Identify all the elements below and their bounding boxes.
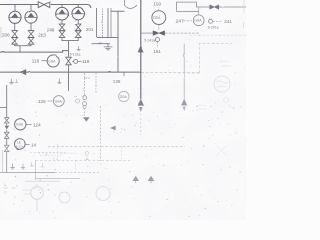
faint left vertical bottom [1,150,3,173]
pump P4 stub [77,5,79,8]
wire dash 241 [213,20,223,22]
pump P3 stub [56,5,88,8]
faint ghost text bottom left [3,188,16,192]
instrument LE circle [14,139,25,150]
instrument GSA faint mid circle [119,91,129,101]
tiny glyph arrows bottom right [133,176,138,183]
pump P2 stub [30,5,32,11]
wire between valves [6,123,8,145]
instrument GSA-126 circle [53,96,64,107]
svg-text:206: 206 [47,27,55,32]
stub GSA-150 [158,7,160,30]
svg-text:GSA: GSA [194,19,202,23]
check valve filled [4,126,9,130]
wire dash 124 [27,124,32,126]
scan mottle texture [0,0,246,220]
valve V-tr (filled bowtie) [210,5,219,10]
svg-text:150: 150 [153,1,161,6]
svg-text:GSA: GSA [55,99,63,103]
instrument GSA-124 circle [15,119,26,130]
wire collector group B [62,37,78,56]
svg-text:S-201a: S-201a [208,25,219,29]
wire pump P4 down [77,20,79,24]
vent symbols bottom [10,164,14,169]
faint right edge ticks [243,0,246,28]
wire pump P2 down [30,23,32,30]
svg-text:GSA: GSA [48,59,56,63]
bus line 2 faint extension [141,72,199,74]
bottom horizontal line 2 [35,178,80,180]
ground symbol [104,47,113,50]
vent symbols below bus2 left [9,79,13,84]
flow arrow left mid [110,126,116,131]
wire valve S-131a down [68,65,70,91]
valve V206b stack [59,24,65,31]
faint circle bottom 3 [96,187,110,201]
riser header [97,37,119,39]
faint vertical with arrow right [183,44,185,99]
svg-text:118: 118 [32,58,40,63]
svg-text:GSA: GSA [153,16,161,20]
svg-text:126: 126 [113,79,121,84]
svg-text:5-131a: 5-131a [70,53,81,57]
ghost squiggles right [216,81,228,87]
main vertical line with flow arrows [140,0,142,99]
small circle above check arrow [84,109,86,116]
svg-text:5-141a: 5-141a [144,39,155,43]
wire collector group A [15,44,31,52]
dashed vertical x100 [99,106,101,161]
dashed drop x84.5 [85,73,91,95]
faint tick top left edge [0,27,2,38]
faint circle bottom 2 [59,192,70,203]
ghost X right mid [216,145,227,156]
pump P1 circle [9,11,21,23]
bus line 1 [0,51,69,53]
svg-text:14: 14 [31,142,37,147]
faint circle bottom 1 [31,187,44,200]
faint vent mid bottom [85,157,89,160]
riser lower header [92,44,111,47]
faint dashes y153 [60,152,76,154]
svg-text:206: 206 [2,33,10,38]
flow arrow up 2 [138,99,144,106]
tiny instrument circle mid [76,99,80,103]
bottom faint line 3 [25,180,60,182]
svg-text:5-17a: 5-17a [16,144,24,148]
svg-text:119: 119 [82,59,90,64]
wire dash 118 [42,60,47,62]
wire pump P1 down [14,23,16,30]
faint box lines bottom left [30,152,68,155]
hose arc [125,0,137,9]
left drop line [0,85,7,117]
instrument GSA-150 circle [152,11,166,25]
vent symbol near collector B [77,46,81,51]
valve V203 stack [28,31,34,38]
small down arrow below [139,107,143,112]
wire pump P3 down [61,20,63,24]
node circle S-141a [155,38,159,42]
pump P1 stub [14,5,16,12]
node circle S-201a [209,19,213,23]
node circle 119 [74,59,78,63]
valve S-131a hourglass [66,57,71,65]
pump P4 circle [72,7,85,20]
svg-text:GSA: GSA [16,123,24,127]
wire dash 14 [26,144,30,146]
node circles x84.5 [83,96,87,100]
faint node circle y153 [85,152,89,156]
flow arrow up 1 [138,45,144,52]
bus line 2 [0,71,141,73]
svg-text:247: 247 [176,18,184,23]
speckle noise [3,3,245,218]
svg-text:241: 241 [224,19,232,24]
vent symbol below bus2 mid [57,79,61,84]
check arrow mid (down) [83,117,90,121]
ghost circle right [214,76,230,92]
valve V206 stack (hourglass x2) [12,31,18,38]
wire valve V150 left/right [141,32,153,34]
bottom horizontal line 1 [0,172,55,174]
valve V150 (filled bowtie) [153,31,165,36]
svg-text:201: 201 [86,27,94,32]
pump P2 internal triangle [28,13,35,17]
pump P3 circle [56,7,69,20]
valve small 1 [4,118,9,123]
parallel pipe risers [96,8,98,38]
valve V-top (bowtie on header) [38,2,50,8]
valve small 2 [4,132,9,138]
equipment bracket top right [177,2,199,11]
pump P1 internal triangle [12,13,19,17]
svg-text:124: 124 [33,123,41,128]
faint dashed line right [190,34,246,36]
pump P2 circle [25,11,37,23]
valve V201 stack [75,24,81,31]
faint frame right [200,44,232,73]
valve small 3 [4,145,9,151]
svg-text:151: 151 [153,49,161,54]
wire top header line [0,5,91,9]
flow arrow left on bus 2 [19,69,26,75]
svg-text:126: 126 [38,99,46,104]
svg-text:GSA: GSA [120,95,128,99]
main riser [111,11,125,72]
stub GSA2 [198,7,200,15]
pipe top right [196,6,246,8]
pump P4 internal triangle [75,9,82,13]
dashed horizontal y146 [48,146,185,148]
instrument GSA2 circle [193,15,204,26]
pump P3 internal triangle [59,9,66,13]
dashed drop x96 [95,73,97,93]
instrument GSA-118 circle [47,55,59,67]
svg-text:203: 203 [38,33,46,38]
dashes below main vertical [140,114,142,135]
wire dash 247 [184,20,192,22]
tick and label 126 on bus2 [123,72,125,76]
